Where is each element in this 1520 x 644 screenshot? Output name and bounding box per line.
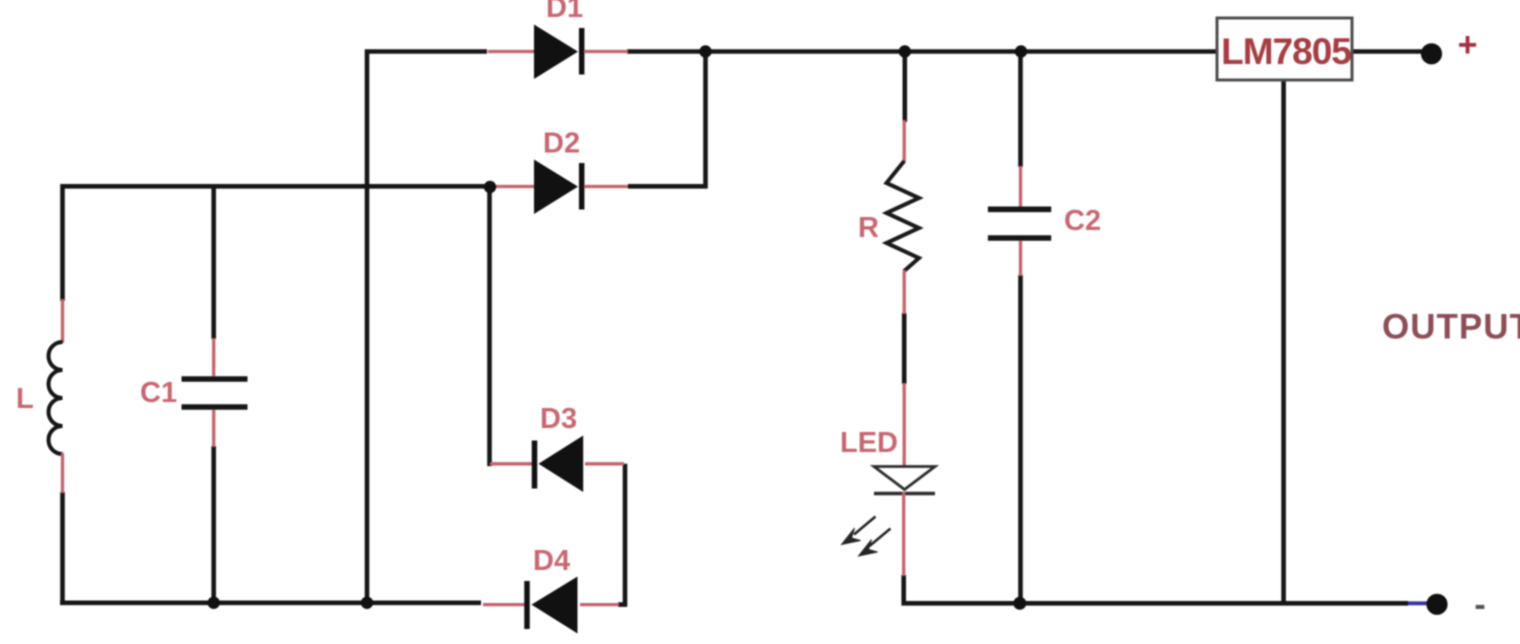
diode D1 triangle — [534, 25, 578, 80]
inductor L lead upper — [61, 299, 64, 343]
svg-text:L: L — [16, 383, 34, 415]
svg-text:D2: D2 — [543, 128, 580, 160]
wire blue segment to - terminal — [1408, 601, 1427, 605]
wire left vertical lower (below L) — [60, 492, 65, 603]
diode D2 cathode bar — [579, 163, 585, 210]
diode D1 lead left — [488, 50, 536, 53]
terminal + dot — [1421, 43, 1442, 64]
inductor L lead lower — [61, 453, 64, 493]
capacitor C2 lead upper — [1019, 166, 1022, 207]
wire left vertical upper (above L) — [60, 184, 65, 301]
diode D4 triangle — [532, 577, 578, 634]
svg-text:+: + — [1458, 26, 1478, 64]
capacitor C1 lead upper — [212, 338, 215, 376]
resistor R zigzag — [887, 161, 920, 271]
svg-text:OUTPUT: OUTPUT — [1382, 308, 1520, 347]
LED triangle outline — [874, 467, 935, 490]
wire bottom rail left — [60, 600, 481, 605]
wire D2 anode drop to D3 — [490, 187, 493, 464]
diode D2 lead right — [584, 185, 628, 188]
LED lead lower — [902, 492, 905, 576]
svg-text:-: - — [1474, 586, 1485, 624]
diode D1 cathode bar — [579, 28, 585, 75]
capacitor C1 lead lower — [212, 410, 215, 447]
svg-text:D1: D1 — [546, 0, 583, 24]
wire left horizontal y=186 — [63, 184, 489, 189]
diode D4 lead left — [483, 603, 525, 606]
resistor R lead above LED — [903, 383, 906, 467]
wire D3-D4 right link — [618, 464, 625, 605]
svg-text:R: R — [858, 212, 879, 244]
LED cathode bar — [874, 492, 935, 496]
diode D3 triangle — [539, 436, 584, 493]
junction node bottom rail / C2 — [1013, 597, 1026, 610]
capacitor C1 plates — [182, 379, 248, 407]
wire C1 upper stub — [211, 186, 216, 339]
capacitor C2 lead lower — [1019, 241, 1022, 276]
diode D3 lead left — [490, 462, 533, 465]
wire R upper stub — [902, 52, 907, 123]
wire C2 lower stub — [1018, 275, 1023, 603]
terminal - dot — [1426, 594, 1447, 615]
svg-text:C2: C2 — [1064, 205, 1101, 237]
diode D2 lead left — [493, 185, 536, 188]
wire node A drop from top rail to D2 cathode — [628, 52, 706, 187]
wire LED bottom corner and bottom rail right — [904, 575, 1408, 603]
diode D1 lead right — [584, 50, 628, 53]
svg-text:C1: C1 — [140, 377, 177, 409]
junction node D2 anode — [484, 181, 496, 193]
wire regulator ground drop — [1281, 80, 1286, 603]
junction node top rail / C2 branch — [1015, 45, 1027, 57]
diode D3 lead right — [585, 462, 624, 465]
svg-text:LM7805: LM7805 — [1221, 31, 1351, 72]
capacitor C2 plates — [988, 209, 1051, 238]
junction node bottom rail / bus x=367 — [361, 597, 373, 609]
diode D2 triangle — [534, 160, 578, 215]
junction node A (top rail / D2 branch) — [699, 45, 711, 57]
regulator U1 LM7805 box — [1217, 18, 1352, 80]
svg-text:D4: D4 — [533, 545, 570, 577]
wire top rail from D1 cathode to regulator input — [627, 49, 1216, 54]
svg-text:LED: LED — [840, 427, 898, 459]
inductor L coil — [49, 342, 63, 454]
LED light arrow 2 — [870, 529, 891, 547]
wire C1 lower stub — [211, 446, 216, 603]
wire R to LED middle black segment — [902, 313, 907, 384]
junction node bottom rail / C1 — [208, 597, 220, 609]
wire C2 upper stub — [1018, 52, 1023, 168]
junction node top rail / R branch — [899, 45, 911, 57]
diode D3 cathode bar — [532, 441, 538, 489]
resistor R lead upper — [903, 120, 906, 162]
diode D4 cathode bar — [524, 581, 530, 629]
LED light arrow 1 — [854, 517, 876, 535]
wire regulator output to + terminal — [1352, 49, 1424, 54]
svg-text:D3: D3 — [540, 403, 577, 435]
diode D4 lead right — [580, 603, 619, 606]
wire top-left corner and vertical bus x=367 — [367, 52, 487, 604]
resistor R lead middle — [903, 270, 906, 314]
